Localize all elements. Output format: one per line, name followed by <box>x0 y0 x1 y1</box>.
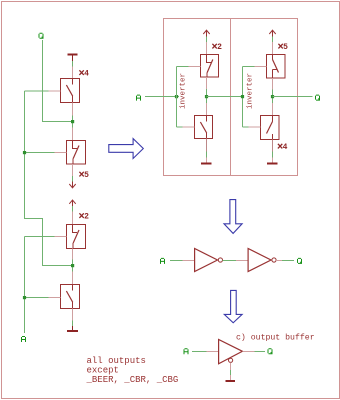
wire to GND bar <box>72 321 74 327</box>
big arrow down 1 <box>224 200 242 234</box>
wire arrow to T3 <box>72 206 74 212</box>
transistor M2 cell1 lower (N-switch) <box>195 116 213 139</box>
wire cell2 out to Q <box>273 96 313 98</box>
power VSS down-arrow below T2 <box>69 182 75 188</box>
wire cell1 lower gate <box>177 126 183 128</box>
wire enable to gnd <box>230 370 232 375</box>
junction node cell1 gate <box>175 95 178 98</box>
junction node cell2 out <box>271 95 274 98</box>
wire A to buffer <box>192 351 207 353</box>
M2 source stub <box>206 139 208 152</box>
cell1 gate bus <box>176 67 178 128</box>
ground T-bar cell1 <box>201 158 212 164</box>
net label Q (buffer row) <box>297 258 302 264</box>
M1 gate stub <box>189 66 201 68</box>
svg-text:_BEER, _CBR, _CBG: _BEER, _CBR, _CBG <box>86 375 179 385</box>
T2 gate stub <box>55 152 67 154</box>
M4 gate stub <box>249 126 261 128</box>
svg-text:c) output buffer: c) output buffer <box>236 333 315 343</box>
junction node Q/chain <box>71 120 74 123</box>
T2 source stub down <box>72 164 74 176</box>
junction node cell1 out <box>205 95 208 98</box>
wire T4 gate branch <box>25 297 49 299</box>
net label A (output buffer) <box>184 348 189 354</box>
cell box 1 (inverter) <box>164 19 231 176</box>
svg-text:2: 2 <box>217 43 222 52</box>
M2 gate stub <box>183 126 195 128</box>
wire cell2 lower gate <box>243 126 249 128</box>
wire inv2 to Q <box>282 260 294 262</box>
cell box 2 (inverter) <box>231 19 298 176</box>
value label *5 <box>278 43 288 52</box>
ground T-bar cell2 <box>267 158 278 164</box>
power up-arrow cell1 (*2) <box>203 30 209 36</box>
svg-text:inverter: inverter <box>180 73 188 109</box>
net label Q (cells output) <box>315 95 320 101</box>
transistor T2 (P-switch, *5) <box>67 141 86 165</box>
T1 drain stub <box>72 67 74 79</box>
value label *4 <box>278 143 288 152</box>
inv2 output stub <box>276 260 282 262</box>
transistor T3 (P-switch, *2) <box>67 225 86 249</box>
net label A (cells input) <box>136 95 141 101</box>
svg-text:5: 5 <box>283 43 288 52</box>
ground T-bar buffer enable <box>226 380 236 382</box>
wire cell1 upper gate <box>177 66 189 68</box>
M1 drain stub <box>206 42 208 55</box>
M3 drain stub <box>272 42 274 55</box>
svg-text:4: 4 <box>283 143 288 152</box>
M4 source stub <box>272 140 274 152</box>
ground T-bar below T4 <box>67 326 78 331</box>
power up-arrow cell2 (*5) <box>269 30 275 36</box>
wire buffer to Q <box>255 351 266 353</box>
inverter symbol U2 <box>248 249 276 272</box>
wire Q to T1/T2 midpoint <box>43 40 72 122</box>
wire cell1 chain to output <box>206 89 208 103</box>
junction node at T2 gate branch <box>23 151 26 154</box>
T1-T2 chain stubs <box>72 103 74 141</box>
input net A wire: to T3,T4 gates <box>25 236 55 238</box>
cell2 gate bus <box>242 67 244 128</box>
svg-text:5: 5 <box>84 171 89 180</box>
wire cell2 chain to output <box>272 90 274 104</box>
wire to VSS arrow <box>72 176 74 182</box>
value label *4 <box>79 70 89 79</box>
inv2 input stub <box>236 260 248 262</box>
gate bus wire: T1,T2 gates to T3/T4 midpoint <box>25 90 49 92</box>
net label Q (output buffer) <box>268 348 273 354</box>
big arrow right (schematic to cells) <box>109 139 144 159</box>
enable gnd stub <box>230 375 232 380</box>
svg-text:inverter: inverter <box>247 73 255 109</box>
value label *2 <box>212 43 222 52</box>
net label A (buffer row) <box>160 258 165 264</box>
svg-text:2: 2 <box>84 213 89 222</box>
tri-state buffer U3 <box>219 340 243 364</box>
big arrow down 2 <box>224 290 242 322</box>
wire inv1 to inv2 <box>223 260 236 262</box>
T3 drain stub <box>72 212 74 225</box>
net label A (bottom left) <box>21 336 26 342</box>
junction node cell2 gate <box>241 95 244 98</box>
svg-text:except: except <box>87 366 119 376</box>
T4 source stub down <box>72 309 74 321</box>
transistor M3 cell2 upper (N-switch flipped) <box>267 55 286 79</box>
M3 gate stub <box>255 66 267 68</box>
svg-text:all outputs: all outputs <box>87 356 146 366</box>
wire arrow to M1 <box>206 37 208 43</box>
wire T2 gate branch <box>25 152 55 154</box>
wire VDD to T1 drain <box>72 61 74 67</box>
T4 gate stub <box>49 297 61 299</box>
junction node at T4 gate branch <box>23 296 26 299</box>
transistor M4 cell2 lower (P-switch flipped) <box>261 116 280 140</box>
cell1 chain stubs <box>206 77 208 115</box>
enable stub <box>230 362 232 370</box>
T3-T4 chain stubs <box>72 249 74 285</box>
svg-text:4: 4 <box>84 70 89 79</box>
power VDD T-bar above T1 <box>68 55 78 62</box>
power VDD up-arrow above T3 <box>69 200 75 206</box>
inverter symbol U1 <box>195 249 223 272</box>
net label Q (top left) <box>39 33 44 39</box>
junction node gatebus/chain <box>71 264 74 267</box>
T1 gate stub <box>49 90 61 92</box>
value label *5 <box>79 171 89 180</box>
wire arrow to M3 <box>272 37 274 43</box>
value label *2 <box>79 213 89 222</box>
wire A to inv1 <box>170 260 183 262</box>
transistor T1 (N-switch, *4) <box>61 79 80 103</box>
cell2 chain stubs <box>272 78 274 115</box>
T3 gate stub <box>55 236 67 238</box>
wire to cell2 gnd <box>272 152 274 158</box>
wire cell2 upper gate <box>243 66 255 68</box>
wire cell1 out to cell2 gate <box>207 96 243 98</box>
buffer input stub <box>207 351 219 353</box>
transistor T4 (N-switch) <box>61 285 80 309</box>
inv1 input stub <box>183 260 195 262</box>
buffer output stub <box>243 351 255 353</box>
wire chain T1-T2 <box>72 116 74 128</box>
wire A into cell1 <box>145 96 179 98</box>
wire to cell1 gnd <box>206 151 208 157</box>
wire chain T3-T4 <box>72 260 74 272</box>
transistor M1 cell1 upper (P-switch) <box>201 55 219 78</box>
